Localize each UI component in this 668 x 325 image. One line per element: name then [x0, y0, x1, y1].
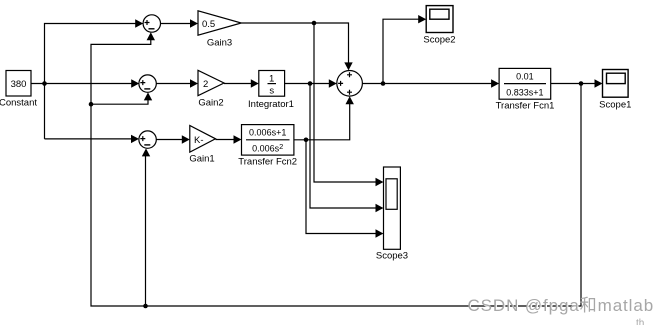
- wire from Gain3 junction down to Scope3 input 1: [314, 23, 384, 186]
- svg-text:1: 1: [269, 74, 274, 85]
- wire Sum1 to Gain3: [161, 19, 199, 27]
- svg-text:0.006s+1: 0.006s+1: [249, 128, 286, 138]
- svg-text:Gain3: Gain3: [207, 38, 232, 49]
- svg-text:0.006s2: 0.006s2: [252, 142, 283, 154]
- constant block Constant value 380: [0, 71, 37, 109]
- wire Gain3 output to big Sum top, junction at x=314: [241, 21, 352, 71]
- svg-text:Transfer Fcn2: Transfer Fcn2: [238, 157, 297, 168]
- integrator block Integrator1 (1/s): [248, 71, 294, 111]
- scope block Scope2: [423, 6, 455, 46]
- scope block Scope1: [599, 70, 631, 111]
- transfer function block Transfer Fcn1 0.01/(0.833s+1): [496, 68, 555, 111]
- wire Transfer Fcn2 output to big Sum bottom, junction at x=306: [294, 96, 354, 142]
- transfer function block Transfer Fcn2 (0.006s+1)/(0.006s^2): [238, 125, 297, 168]
- feedback wire from Transfer Fcn1 output down, across bottom, up to Sum1: [91, 32, 581, 306]
- wire big Sum output to Transfer Fcn1, junction at x=383: [362, 79, 499, 87]
- svg-text:Scope2: Scope2: [423, 35, 455, 46]
- gain block Gain2 value 2: [198, 70, 224, 108]
- svg-text:2: 2: [203, 79, 208, 90]
- wire from Transfer Fcn2 junction down to Scope3 input 3: [306, 140, 384, 238]
- svg-text:Constant: Constant: [0, 98, 37, 109]
- svg-text:0.01: 0.01: [516, 72, 534, 82]
- svg-text:th: th: [636, 318, 644, 325]
- junction on feedback vertical feeding Sum2: [89, 92, 153, 106]
- wire Sum2 to Gain2: [156, 79, 198, 87]
- svg-text:Gain2: Gain2: [198, 98, 223, 109]
- svg-text:K-: K-: [194, 135, 204, 146]
- svg-text:Scope3: Scope3: [376, 251, 408, 262]
- wire from Integrator junction down to Scope3 input 2: [310, 84, 384, 213]
- sum block Sum4 big (+ + +): [337, 71, 363, 97]
- gain block Gain1 value K-: [189, 126, 215, 165]
- sum block Sum2 (+ -): [139, 75, 156, 92]
- svg-text:380: 380: [11, 79, 27, 90]
- wire from junction up to Scope2: [383, 15, 426, 84]
- wire Gain1 to Transfer Fcn2: [216, 135, 242, 143]
- svg-text:Scope1: Scope1: [599, 100, 631, 111]
- gain block Gain3 value 0.5: [198, 11, 241, 49]
- svg-text:Transfer Fcn1: Transfer Fcn1: [496, 101, 555, 112]
- sum block Sum3 (+ -): [139, 131, 156, 148]
- svg-text:0.5: 0.5: [202, 19, 215, 30]
- wire Sum3 to Gain1: [156, 135, 190, 143]
- svg-text:CSDN @fpga和matlab: CSDN @fpga和matlab: [468, 296, 655, 315]
- wire Transfer Fcn1 to Scope1, junction at x=581: [551, 79, 603, 87]
- watermark CSDN @fpga和matlab: [468, 296, 656, 325]
- svg-text:Integrator1: Integrator1: [248, 99, 294, 110]
- wire Gain2 to Integrator1: [224, 79, 259, 87]
- svg-text:0.833s+1: 0.833s+1: [506, 88, 543, 98]
- svg-text:s: s: [269, 86, 274, 97]
- junction on bottom feedback line feeding Sum3: [142, 148, 150, 308]
- sum block Sum1 (+ -): [143, 15, 160, 32]
- scope block Scope3 (3 inputs): [376, 167, 408, 262]
- svg-text:Gain1: Gain1: [189, 154, 214, 165]
- wire from Constant to Sum2 with junction at x=44.5: [31, 79, 139, 87]
- wire Integrator1 to big Sum left, junction at x=310: [285, 79, 337, 87]
- wire vertical branch x=44.5 from top row down to Sum3 row: [45, 19, 144, 143]
